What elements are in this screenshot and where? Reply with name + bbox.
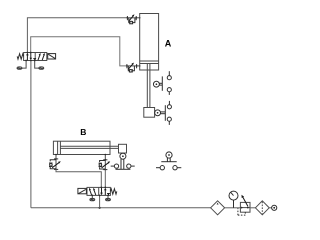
limit marker a1 lower — [167, 88, 171, 95]
wire cylinder B right port stub — [104, 155, 106, 160]
wire FC4 out down to valve V2 port2 — [104, 170, 106, 188]
limit marker a0 lower — [167, 117, 171, 125]
cam roller M3 under load block — [116, 153, 131, 169]
node V1 port dots — [25, 52, 35, 62]
one-way flow control FC1 (cylinder A cap side) — [127, 14, 141, 24]
one-way flow control FC2 (cylinder A rod side) — [126, 63, 140, 73]
cam roller M4 at retracted mark — [161, 152, 176, 162]
one-way flow control FC4 (cylinder B right) — [99, 154, 111, 171]
limit marker b0 left — [156, 166, 164, 170]
wire regulator to filter — [250, 207, 255, 209]
valve V1 right box flow arrows — [38, 53, 45, 60]
wire main supply line along bottom — [31, 207, 211, 209]
cylinder B body — [53, 141, 110, 154]
limit marker b1 right — [127, 164, 135, 168]
cylinder A body — [140, 14, 159, 71]
valve V2 spring (right) — [110, 189, 116, 194]
filter — [255, 201, 269, 215]
compressed air source — [272, 205, 277, 210]
valve V1 exhaust right stub — [35, 61, 39, 69]
cylinder B piston — [58, 141, 61, 154]
wire supply riser from valve V1 port1 down to main line — [30, 61, 32, 208]
muffler on V1 left exhaust — [17, 67, 22, 69]
muffler on V1 right exhaust — [39, 67, 44, 69]
cylinder B piston rod — [60, 146, 118, 148]
muffler on V2 right exhaust — [106, 198, 111, 200]
svg-text:A: A — [165, 39, 172, 49]
one-way flow control FC3 (cylinder B left) — [49, 154, 61, 171]
valve V2 exhaust left stub — [91, 195, 93, 199]
valve V2 right box flow arrows — [100, 188, 110, 196]
valve V2 exhaust right stub — [107, 195, 109, 199]
muffler on V2 left exhaust — [90, 198, 95, 200]
cam roller M1 at piston position — [153, 76, 162, 90]
cam roller M2 at weight position — [155, 105, 166, 121]
valve V2 left box flow arrows — [89, 188, 96, 195]
wire valve V2 port1 stub down to main supply line — [99, 195, 101, 207]
svg-text:B: B — [80, 127, 86, 137]
weight on cylinder A rod — [144, 108, 155, 118]
cylinder A piston rod — [147, 64, 150, 108]
wire port2 of valve V1 up, right, down to flow control FC2 — [31, 37, 127, 66]
valve V2 5/2-way body — [87, 187, 110, 195]
limit marker a0 upper — [167, 101, 171, 109]
load block on cylinder B rod — [119, 144, 127, 153]
pressure regulator — [238, 195, 250, 215]
node V2 port dots — [91, 187, 108, 197]
valve V1 exhaust left stub — [22, 61, 26, 69]
wire lubricator to regulator — [225, 207, 241, 209]
cylinder A piston — [140, 61, 159, 64]
limit marker a1 upper — [167, 71, 171, 80]
wire FC3 out, right and down to valve V2 port4 — [56, 169, 101, 187]
valve V1 spring (left) — [17, 54, 23, 59]
pressure gauge — [229, 191, 238, 208]
wire filter to air source — [269, 207, 271, 209]
lubricator — [211, 201, 225, 215]
limit marker b0 right — [173, 166, 181, 170]
wire cylinder B left port stub — [55, 155, 57, 159]
node junction supply to valve V2 — [99, 207, 101, 209]
valve V1 5/2-way body — [24, 53, 47, 61]
valve V1 left box flow arrows — [26, 53, 36, 61]
limit marker b1 left — [111, 164, 119, 168]
valve V2 pilot box (left) — [78, 188, 87, 193]
wire port4 of valve V1 up and right to flow control FC1 — [27, 18, 127, 53]
valve V1 pilot box (right) — [48, 54, 56, 59]
